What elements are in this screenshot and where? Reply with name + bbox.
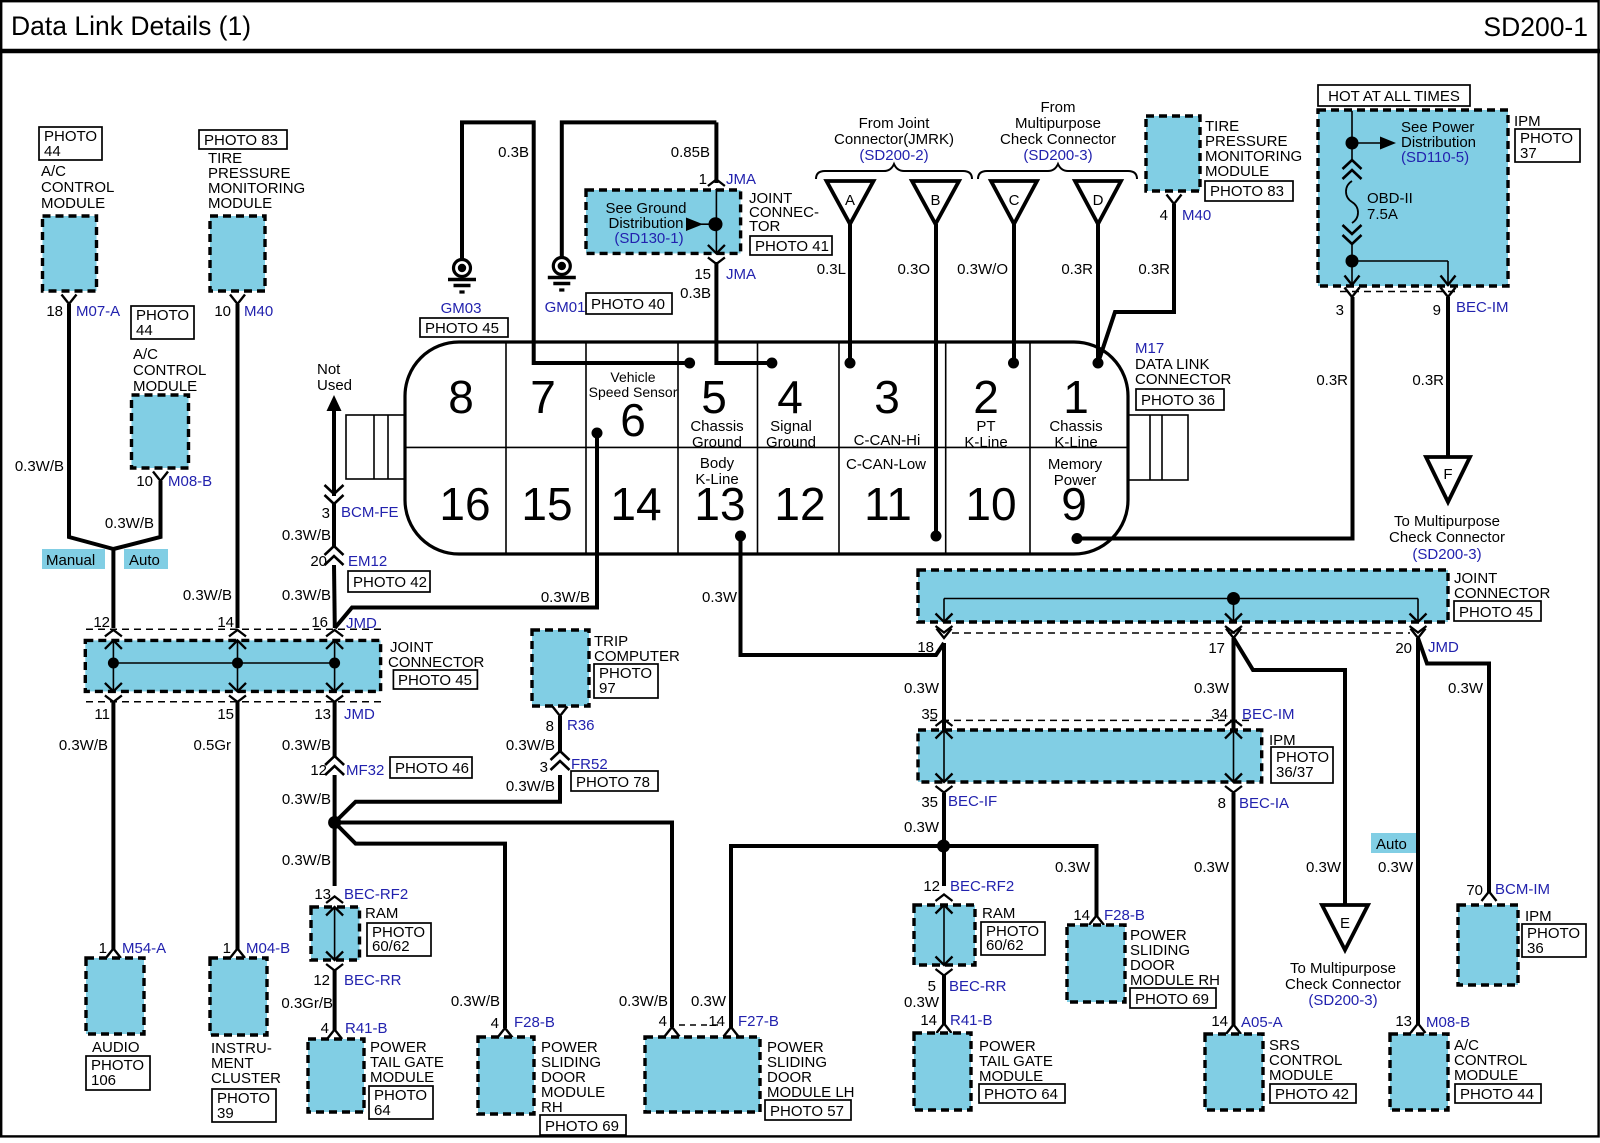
wire M40 to DLC pin 1 xyxy=(1098,204,1174,363)
svg-text:12: 12 xyxy=(310,762,327,779)
svg-text:BEC-IM: BEC-IM xyxy=(1456,299,1509,316)
photo ref box PHOTO 45 xyxy=(420,318,508,337)
DLC mid line xyxy=(406,446,1127,448)
svg-text:K-Line: K-Line xyxy=(964,434,1007,451)
module box IPM (BEC) xyxy=(918,730,1262,782)
wire B to pin 11 xyxy=(934,224,938,536)
connector pin 9 BEC-IM xyxy=(1441,288,1456,298)
svg-text:13: 13 xyxy=(1395,1013,1412,1030)
wire branch to RH module pin 4 xyxy=(335,823,505,1029)
svg-text:GM01: GM01 xyxy=(545,299,586,316)
connector pin 18 xyxy=(937,629,952,639)
wire pin20 to A/C module xyxy=(1416,638,1420,1024)
wire pin4 to JMA joint connector and GM01 ground xyxy=(716,262,772,363)
svg-text:1: 1 xyxy=(99,940,107,957)
svg-text:OBD-II: OBD-II xyxy=(1367,190,1413,207)
svg-text:7.5A: 7.5A xyxy=(1367,206,1398,223)
connector pin 1 JMA xyxy=(708,180,725,199)
svg-text:PHOTO 40: PHOTO 40 xyxy=(591,296,665,313)
module box TPMS right xyxy=(1146,116,1200,191)
pin 4 Signal Ground xyxy=(766,371,816,451)
photo ref box PHOTO 36 xyxy=(1136,389,1224,410)
svg-text:E: E xyxy=(1340,915,1350,932)
module label TIRE PRESSURE MONITORING MODULE xyxy=(208,150,305,212)
svg-text:MODULE: MODULE xyxy=(979,1068,1043,1085)
svg-text:0.85B: 0.85B xyxy=(671,144,710,161)
module label A/C CONTROL MODULE xyxy=(133,346,206,395)
boundary dashed between pins xyxy=(679,1024,722,1026)
svg-text:14: 14 xyxy=(708,1013,725,1030)
svg-text:15: 15 xyxy=(521,478,572,530)
pin 3 C-CAN-Hi xyxy=(854,371,921,449)
photo ref box PHOTO 78 xyxy=(571,771,658,791)
internal arrow xyxy=(936,895,953,914)
svg-text:0.3W: 0.3W xyxy=(691,993,727,1010)
svg-text:0.3W/B: 0.3W/B xyxy=(282,852,331,869)
svg-text:(SD200-3): (SD200-3) xyxy=(1308,992,1377,1009)
svg-text:70: 70 xyxy=(1466,882,1483,899)
photo ref box PHOTO 69 xyxy=(1130,988,1216,1008)
svg-text:4: 4 xyxy=(321,1020,329,1037)
svg-text:Check Connector: Check Connector xyxy=(1389,529,1505,546)
module box IPM (power distribution) xyxy=(1318,110,1508,286)
svg-text:PHOTO 42: PHOTO 42 xyxy=(1275,1086,1349,1103)
svg-text:JMD: JMD xyxy=(344,706,375,723)
svg-text:MODULE: MODULE xyxy=(1205,163,1269,180)
svg-text:0.3R: 0.3R xyxy=(1412,372,1444,389)
svg-text:Multipurpose: Multipurpose xyxy=(1015,115,1101,132)
destination label To Multipurpose Check Connector (SD200-3) xyxy=(1389,513,1505,563)
svg-text:3: 3 xyxy=(540,759,548,776)
svg-text:11: 11 xyxy=(864,478,912,530)
svg-text:R36: R36 xyxy=(567,717,595,734)
svg-text:0.3R: 0.3R xyxy=(1316,372,1348,389)
module box TPMS (M40) xyxy=(210,216,265,291)
svg-text:IPM: IPM xyxy=(1525,908,1552,925)
svg-text:0.3O: 0.3O xyxy=(897,261,930,278)
svg-text:5: 5 xyxy=(928,978,936,995)
joint connector box right xyxy=(918,570,1448,622)
wire pin5 to GM03 ground xyxy=(462,122,690,363)
svg-text:C: C xyxy=(1009,192,1020,209)
svg-text:8: 8 xyxy=(1218,795,1226,812)
pin 11 C-CAN-Low xyxy=(846,456,926,530)
module box RAM xyxy=(914,905,975,965)
connector pin 4 F28-B xyxy=(498,1028,513,1038)
svg-text:0.3W: 0.3W xyxy=(1194,680,1230,697)
module box TRIP COMPUTER xyxy=(532,630,589,706)
svg-text:14: 14 xyxy=(610,478,661,530)
svg-text:60/62: 60/62 xyxy=(372,938,410,955)
connector pin 14 A05-A xyxy=(1226,1025,1241,1035)
connector pin 20 JMD xyxy=(1411,629,1426,639)
svg-text:CLUSTER: CLUSTER xyxy=(211,1070,281,1087)
connector pin 17 xyxy=(1226,629,1241,639)
label JOINT CONNECTOR xyxy=(1454,570,1551,602)
joint connector label JOINT CONNEC-TOR / PHOTO 41 xyxy=(749,190,819,235)
svg-text:HOT AT ALL TIMES: HOT AT ALL TIMES xyxy=(1328,88,1460,105)
photo ref box PHOTO 44 xyxy=(39,127,102,160)
svg-text:C-CAN-Low: C-CAN-Low xyxy=(846,456,926,473)
svg-text:0.3R: 0.3R xyxy=(1061,261,1093,278)
photo ref box PHOTO 97 xyxy=(594,664,658,698)
wire pin18 to IPM pin35 xyxy=(942,643,946,730)
svg-text:PHOTO 83: PHOTO 83 xyxy=(1210,183,1284,200)
svg-text:0.3W: 0.3W xyxy=(904,680,940,697)
connector pin 1 M54-A xyxy=(106,949,121,959)
photo ref box PHOTO 57 xyxy=(765,1100,851,1120)
svg-text:Signal: Signal xyxy=(770,418,812,435)
joint connector box See Ground Distribution xyxy=(586,190,741,253)
internal line to bottom pins xyxy=(1351,243,1353,286)
svg-text:BCM-FE: BCM-FE xyxy=(341,504,399,521)
svg-text:15: 15 xyxy=(694,266,711,283)
svg-text:M54-A: M54-A xyxy=(122,940,166,957)
svg-text:0.3B: 0.3B xyxy=(680,285,711,302)
svg-text:0.3W/B: 0.3W/B xyxy=(15,458,64,475)
svg-text:F27-B: F27-B xyxy=(738,1013,779,1030)
module box xyxy=(1067,925,1125,1002)
connector 3 FR52 xyxy=(551,751,570,770)
connector pin 14 R41-B xyxy=(937,1024,952,1034)
svg-text:BEC-RR: BEC-RR xyxy=(344,972,402,989)
photo ref box PHOTO 69 xyxy=(540,1115,626,1135)
svg-text:SD200-1: SD200-1 xyxy=(1483,12,1588,42)
svg-text:13: 13 xyxy=(694,478,745,530)
node pin1 xyxy=(1093,358,1104,369)
svg-text:PHOTO 83: PHOTO 83 xyxy=(204,132,278,149)
svg-text:From Joint: From Joint xyxy=(859,115,931,132)
svg-text:12: 12 xyxy=(93,614,110,631)
svg-text:M40: M40 xyxy=(1182,207,1211,224)
svg-text:C-CAN-Hi: C-CAN-Hi xyxy=(854,432,921,449)
svg-text:Used: Used xyxy=(317,377,352,394)
module label TIRE PRESSURE MONITORING MODULE xyxy=(1205,118,1302,180)
connector 3 BCM-FE xyxy=(325,485,344,504)
wire R36 to FR52 xyxy=(558,716,562,753)
connector pin 14 F28-B xyxy=(1089,916,1104,926)
svg-text:0.3W/B: 0.3W/B xyxy=(282,587,331,604)
svg-text:0.3W/B: 0.3W/B xyxy=(619,993,668,1010)
svg-text:0.3W/B: 0.3W/B xyxy=(451,993,500,1010)
svg-text:3: 3 xyxy=(1336,302,1344,319)
svg-text:16: 16 xyxy=(439,478,490,530)
svg-text:4: 4 xyxy=(777,371,803,423)
svg-text:18: 18 xyxy=(46,303,63,320)
svg-text:4: 4 xyxy=(659,1013,667,1030)
svg-text:BEC-RF2: BEC-RF2 xyxy=(344,886,408,903)
svg-text:0.3W/B: 0.3W/B xyxy=(59,737,108,754)
svg-text:A/C: A/C xyxy=(133,346,158,363)
header separator line xyxy=(0,49,1600,54)
module box POWER TAIL GATE MODULE xyxy=(308,1039,364,1112)
joint connector label xyxy=(388,639,485,671)
svg-text:F28-B: F28-B xyxy=(514,1014,555,1031)
svg-text:1: 1 xyxy=(1063,371,1089,423)
svg-text:PHOTO 78: PHOTO 78 xyxy=(576,774,650,791)
triangle connector F xyxy=(1426,457,1470,502)
wire A to pin 3 xyxy=(848,224,852,363)
highlight label Manual xyxy=(42,549,105,569)
svg-text:BEC-IM: BEC-IM xyxy=(1242,706,1295,723)
svg-text:PHOTO 57: PHOTO 57 xyxy=(770,1103,844,1120)
svg-text:9: 9 xyxy=(1061,478,1087,530)
boundary dashed line top xyxy=(86,628,381,630)
svg-text:AUDIO: AUDIO xyxy=(92,1039,140,1056)
wire DLC pin13 to JMD pin18 xyxy=(741,536,945,655)
svg-text:Manual: Manual xyxy=(46,552,95,569)
photo ref box PHOTO 60/62 xyxy=(367,923,431,956)
keying box right xyxy=(1128,415,1188,480)
svg-text:To Multipurpose: To Multipurpose xyxy=(1394,513,1500,530)
connector pin 13 M08-B xyxy=(1411,1024,1426,1034)
svg-text:EM12: EM12 xyxy=(348,553,387,570)
node pin11 xyxy=(931,531,942,542)
svg-text:PHOTO 69: PHOTO 69 xyxy=(545,1118,619,1135)
svg-text:4: 4 xyxy=(491,1015,499,1032)
wire branch to LH module pin 4 xyxy=(335,823,672,1028)
connector pin 4 xyxy=(665,1027,680,1037)
svg-text:1: 1 xyxy=(223,940,231,957)
svg-text:14: 14 xyxy=(1073,907,1090,924)
svg-text:COMPUTER: COMPUTER xyxy=(594,648,680,665)
module box AUDIO xyxy=(86,958,144,1034)
svg-text:0.3W: 0.3W xyxy=(1306,859,1342,876)
svg-text:0.3R: 0.3R xyxy=(1138,261,1170,278)
svg-text:CONNECTOR: CONNECTOR xyxy=(1135,371,1232,388)
svg-text:Connector(JMRK): Connector(JMRK) xyxy=(834,131,954,148)
svg-text:(SD110-5): (SD110-5) xyxy=(1401,149,1469,166)
svg-text:0.3L: 0.3L xyxy=(817,261,846,278)
svg-text:20: 20 xyxy=(1395,640,1412,657)
svg-text:F: F xyxy=(1443,466,1452,483)
wire IPM pin9 to F xyxy=(1446,297,1450,458)
svg-text:PHOTO 45: PHOTO 45 xyxy=(398,672,472,689)
svg-text:RAM: RAM xyxy=(365,905,398,922)
pin 1 Chassis K-Line xyxy=(1049,371,1102,451)
svg-text:BEC-RF2: BEC-RF2 xyxy=(950,878,1014,895)
svg-text:JMA: JMA xyxy=(726,266,756,283)
module box A/C control (M07-A) xyxy=(43,216,97,291)
svg-text:10: 10 xyxy=(965,478,1016,530)
connector pin 18 M07-A xyxy=(62,295,77,305)
svg-text:0.3W: 0.3W xyxy=(1055,859,1091,876)
photo ref box PHOTO 39 xyxy=(212,1089,276,1122)
internal arrow xyxy=(326,897,343,916)
svg-text:36: 36 xyxy=(1527,940,1544,957)
wire BEC-IF down to junction xyxy=(942,793,946,886)
svg-text:Auto: Auto xyxy=(129,552,160,569)
internal bus line xyxy=(113,662,334,664)
M17 DLC label xyxy=(1135,340,1232,388)
highlight label Auto xyxy=(124,549,168,569)
svg-text:14: 14 xyxy=(920,1012,937,1029)
svg-text:2: 2 xyxy=(973,371,999,423)
connector pin 1 M04-B xyxy=(230,949,245,959)
svg-text:36/37: 36/37 xyxy=(1276,764,1314,781)
photo ref box PHOTO 64 xyxy=(979,1084,1065,1103)
internal feed line xyxy=(1351,111,1353,162)
svg-text:Ground: Ground xyxy=(692,434,742,451)
svg-text:Vehicle: Vehicle xyxy=(610,369,655,385)
internal pin assemblies xyxy=(105,630,343,702)
svg-text:15: 15 xyxy=(217,706,234,723)
svg-text:MODULE: MODULE xyxy=(133,378,197,395)
node pin2 xyxy=(1008,358,1019,369)
svg-text:44: 44 xyxy=(136,322,153,339)
svg-text:GM03: GM03 xyxy=(441,300,482,317)
wire to EM12 xyxy=(332,503,336,548)
wire pin11 to AUDIO xyxy=(111,702,115,949)
svg-text:20: 20 xyxy=(310,553,327,570)
svg-text:From: From xyxy=(1041,99,1076,116)
wire M07-A to Manual merge xyxy=(69,304,113,549)
svg-text:3: 3 xyxy=(322,505,330,522)
svg-text:PHOTO 42: PHOTO 42 xyxy=(353,574,427,591)
svg-text:60/62: 60/62 xyxy=(986,937,1024,954)
svg-text:0.3W: 0.3W xyxy=(702,589,738,606)
svg-text:PHOTO 45: PHOTO 45 xyxy=(425,320,499,337)
svg-text:PHOTO 36: PHOTO 36 xyxy=(1141,392,1215,409)
connector pin 4 M40 xyxy=(1167,195,1182,205)
svg-text:106: 106 xyxy=(91,1072,116,1089)
node pin5 xyxy=(684,358,695,369)
svg-text:D: D xyxy=(1093,192,1104,209)
photo ref box PHOTO 45 xyxy=(1454,601,1541,621)
wire EM12 to JMD pin 16 xyxy=(332,565,337,628)
module box A/C control (M08-B) xyxy=(132,395,189,468)
module box A/C CONTROL MODULE xyxy=(1390,1034,1448,1110)
svg-text:(SD130-1): (SD130-1) xyxy=(614,230,683,247)
svg-text:MODULE: MODULE xyxy=(1269,1067,1333,1084)
svg-text:B: B xyxy=(930,192,940,209)
svg-text:0.5Gr: 0.5Gr xyxy=(193,737,231,754)
svg-text:3: 3 xyxy=(874,371,900,423)
svg-text:MODULE RH: MODULE RH xyxy=(1130,972,1220,989)
photo ref box PHOTO 45 xyxy=(393,670,477,689)
svg-text:PHOTO 44: PHOTO 44 xyxy=(1460,1086,1534,1103)
triangle connector D xyxy=(1075,181,1121,224)
svg-text:A: A xyxy=(845,192,855,209)
internal bus xyxy=(944,598,1418,600)
module box xyxy=(645,1037,760,1112)
photo ref box PHOTO 106 xyxy=(86,1056,150,1090)
svg-text:Ground: Ground xyxy=(766,434,816,451)
svg-text:Not: Not xyxy=(317,361,341,378)
svg-text:0.3Gr/B: 0.3Gr/B xyxy=(281,995,333,1012)
photo ref box PHOTO 64 xyxy=(369,1086,433,1119)
node pin13 xyxy=(735,531,746,542)
svg-text:1: 1 xyxy=(699,171,707,188)
svg-text:18: 18 xyxy=(917,639,934,656)
svg-text:PHOTO 46: PHOTO 46 xyxy=(395,760,469,777)
photo ref box PHOTO 40 xyxy=(586,293,672,314)
photo ref box PHOTO 36 xyxy=(1522,924,1586,957)
svg-text:RAM: RAM xyxy=(982,905,1015,922)
triangle connector A xyxy=(827,181,874,224)
internal node dot xyxy=(1227,592,1240,605)
keying box left xyxy=(346,415,405,479)
brace right xyxy=(978,164,1137,179)
node pin3 xyxy=(845,358,856,369)
wire branch right to RH2 pin 14 xyxy=(944,846,1097,916)
svg-text:MODULE: MODULE xyxy=(370,1069,434,1086)
From Multipurpose Check Connector header xyxy=(1000,99,1116,164)
internal node dot and feed arrow xyxy=(686,218,703,232)
svg-text:64: 64 xyxy=(374,1102,391,1119)
svg-text:0.3W: 0.3W xyxy=(904,994,940,1011)
photo ref box PHOTO 44 xyxy=(131,306,194,339)
svg-text:A05-A: A05-A xyxy=(1241,1014,1283,1031)
svg-text:A/C: A/C xyxy=(41,163,66,180)
svg-text:14: 14 xyxy=(217,614,234,631)
wire BEC-RR to R41-B xyxy=(333,970,337,1030)
triangle connector B xyxy=(912,181,959,224)
svg-text:IPM: IPM xyxy=(1514,113,1541,130)
svg-text:0.3W/B: 0.3W/B xyxy=(183,587,232,604)
svg-text:To Multipurpose: To Multipurpose xyxy=(1290,960,1396,977)
svg-text:MODULE LH: MODULE LH xyxy=(767,1084,855,1101)
svg-text:PHOTO 64: PHOTO 64 xyxy=(984,1086,1058,1103)
svg-text:16: 16 xyxy=(311,614,328,631)
svg-text:BCM-IM: BCM-IM xyxy=(1495,881,1550,898)
connector boundary dashed BEC-IM xyxy=(1340,291,1460,293)
svg-text:CONNECTOR: CONNECTOR xyxy=(1454,585,1551,602)
module box INSTRUMENT CLUSTER xyxy=(210,958,267,1035)
ground GM01 xyxy=(548,258,576,291)
destination label To Multipurpose Check Connector (SD200-3) xyxy=(1285,960,1401,1009)
svg-text:12: 12 xyxy=(313,972,330,989)
svg-text:10: 10 xyxy=(214,303,231,320)
svg-text:M08-B: M08-B xyxy=(1426,1014,1470,1031)
svg-text:R41-B: R41-B xyxy=(345,1020,388,1037)
pin 5 Chassis Ground xyxy=(690,371,743,451)
svg-text:F28-B: F28-B xyxy=(1104,907,1145,924)
wire C to pin 2 xyxy=(1012,224,1016,363)
internal pin lines xyxy=(936,720,953,739)
svg-text:CONNECTOR: CONNECTOR xyxy=(388,654,485,671)
connector 12 MF32 xyxy=(325,756,344,775)
wire to R41-B xyxy=(942,975,946,1024)
svg-text:R41-B: R41-B xyxy=(950,1012,993,1029)
photo ref box PHOTO 37 xyxy=(1515,129,1580,162)
pin 2 PT K-Line xyxy=(964,371,1007,451)
svg-text:Check Connector: Check Connector xyxy=(1285,976,1401,993)
module label A/C CONTROL MODULE xyxy=(41,163,114,212)
svg-text:MODULE: MODULE xyxy=(1454,1067,1518,1084)
wire MF32 to junction xyxy=(333,775,337,886)
svg-text:0.3W: 0.3W xyxy=(1448,680,1484,697)
wire branch to FR52 xyxy=(335,775,560,823)
svg-text:Auto: Auto xyxy=(1376,836,1407,853)
svg-text:0.3W/B: 0.3W/B xyxy=(105,515,154,532)
pin 13 Body K-Line xyxy=(694,455,745,530)
svg-text:8: 8 xyxy=(546,718,554,735)
connector pin 70 BCM-IM xyxy=(1482,892,1497,902)
node dot xyxy=(1346,137,1359,150)
photo ref box PHOTO 83 xyxy=(1205,181,1293,201)
connector 20 EM12 xyxy=(325,546,344,565)
svg-text:35: 35 xyxy=(921,794,938,811)
svg-text:0.3W/B: 0.3W/B xyxy=(282,527,331,544)
HOT AT ALL TIMES box xyxy=(1318,85,1470,106)
highlight label Auto xyxy=(1371,833,1416,853)
node pin6 xyxy=(592,428,603,439)
svg-text:Data Link Details (1): Data Link Details (1) xyxy=(11,11,251,41)
svg-text:10: 10 xyxy=(136,473,153,490)
connector pin 8 R36 xyxy=(553,707,568,717)
svg-text:BEC-IA: BEC-IA xyxy=(1239,795,1289,812)
